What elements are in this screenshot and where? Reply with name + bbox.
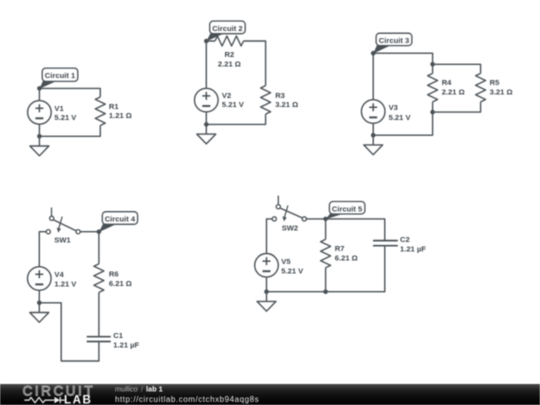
svg-text:R7: R7 (335, 244, 345, 253)
svg-text:1.21 Ω: 1.21 Ω (109, 111, 132, 120)
svg-text:SW2: SW2 (282, 224, 298, 233)
svg-text:V4: V4 (54, 270, 64, 279)
svg-text:R6: R6 (109, 269, 119, 278)
svg-text:5.21 V: 5.21 V (389, 113, 412, 122)
svg-text:Circuit 4: Circuit 4 (105, 215, 136, 224)
svg-text:R2: R2 (225, 50, 235, 59)
svg-text:R4: R4 (442, 78, 452, 87)
svg-text:1.21 µF: 1.21 µF (400, 245, 426, 254)
svg-text:V1: V1 (54, 104, 64, 113)
svg-text:V3: V3 (389, 103, 398, 112)
svg-text:6.21 Ω: 6.21 Ω (109, 279, 132, 288)
svg-text:5.21 V: 5.21 V (54, 113, 77, 122)
svg-text:1.21 V: 1.21 V (54, 279, 77, 288)
svg-text:6.21 Ω: 6.21 Ω (335, 253, 358, 262)
svg-text:/: / (141, 385, 144, 394)
svg-text:5.21 V: 5.21 V (222, 100, 245, 109)
svg-text:C2: C2 (400, 235, 410, 244)
svg-text:lab 1: lab 1 (146, 385, 163, 394)
svg-text:2.21 Ω: 2.21 Ω (442, 88, 465, 97)
svg-text:mullico: mullico (115, 385, 138, 394)
svg-text:http://circuitlab.com/ctchxb94: http://circuitlab.com/ctchxb94aqg8s (115, 395, 259, 404)
svg-text:V2: V2 (222, 91, 231, 100)
svg-text:R3: R3 (275, 91, 285, 100)
svg-text:Circuit 3: Circuit 3 (379, 36, 409, 45)
svg-text:LAB: LAB (64, 393, 92, 405)
svg-text:5.21 V: 5.21 V (281, 266, 304, 275)
svg-text:SW1: SW1 (54, 236, 71, 245)
svg-text:Circuit 5: Circuit 5 (332, 205, 363, 214)
svg-text:Circuit 1: Circuit 1 (45, 71, 76, 80)
svg-text:Circuit 2: Circuit 2 (212, 24, 242, 33)
svg-text:C1: C1 (113, 331, 123, 340)
svg-text:V5: V5 (281, 257, 291, 266)
svg-text:R1: R1 (109, 102, 119, 111)
svg-text:2.21 Ω: 2.21 Ω (218, 59, 241, 68)
svg-text:3.21 Ω: 3.21 Ω (275, 100, 298, 109)
svg-text:3.21 Ω: 3.21 Ω (490, 88, 513, 97)
svg-text:1.21 µF: 1.21 µF (113, 340, 139, 349)
svg-text:R5: R5 (490, 78, 500, 87)
